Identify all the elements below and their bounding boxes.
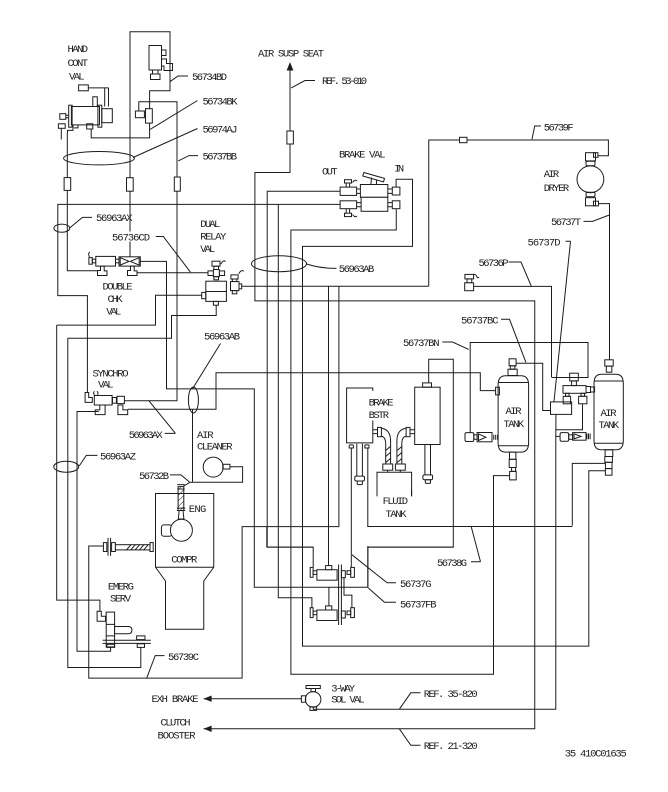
svg-text:56736P: 56736P (479, 258, 509, 270)
svg-text:56963AX: 56963AX (96, 213, 133, 225)
svg-text:56739F: 56739F (544, 122, 574, 134)
svg-text:56737BB: 56737BB (203, 152, 238, 164)
svg-text:35 410C01635: 35 410C01635 (565, 749, 627, 761)
svg-text:EMERG: EMERG (108, 582, 134, 594)
svg-text:AIR: AIR (544, 169, 560, 181)
svg-text:VAL: VAL (98, 380, 114, 392)
svg-text:CONT: CONT (68, 58, 89, 70)
svg-text:VAL: VAL (200, 244, 215, 256)
svg-text:56963AB: 56963AB (339, 264, 375, 276)
svg-text:VAL: VAL (69, 71, 85, 83)
svg-text:56732B: 56732B (139, 471, 169, 483)
svg-text:FLUID: FLUID (383, 496, 409, 508)
svg-text:TANK: TANK (504, 419, 525, 431)
svg-text:REF. 53-010: REF. 53-010 (322, 76, 367, 88)
svg-text:CHK: CHK (108, 294, 124, 306)
svg-text:CLEANER: CLEANER (197, 441, 233, 453)
svg-text:ENG: ENG (189, 504, 207, 516)
svg-text:AIR: AIR (506, 406, 523, 418)
svg-text:DUAL: DUAL (200, 219, 220, 231)
svg-text:56974AJ: 56974AJ (203, 125, 238, 137)
svg-text:56736CD: 56736CD (112, 233, 150, 245)
svg-text:AIR: AIR (197, 430, 214, 442)
svg-text:OUT: OUT (322, 166, 338, 178)
svg-text:TANK: TANK (599, 420, 620, 432)
svg-text:REF. 35-820: REF. 35-820 (424, 689, 478, 701)
svg-text:56963AZ: 56963AZ (100, 452, 136, 464)
svg-text:56739C: 56739C (168, 652, 199, 664)
svg-text:56963AB: 56963AB (204, 332, 240, 344)
svg-text:BOOSTER: BOOSTER (158, 731, 197, 743)
svg-text:56737BN: 56737BN (403, 338, 440, 350)
svg-text:56738G: 56738G (437, 558, 467, 570)
svg-text:56737D: 56737D (528, 237, 561, 249)
svg-text:DRYER: DRYER (544, 183, 570, 195)
svg-text:BSTR: BSTR (369, 410, 390, 422)
svg-text:EXH BRAKE: EXH BRAKE (152, 694, 199, 706)
svg-text:IN: IN (394, 163, 404, 175)
svg-text:VAL: VAL (106, 306, 121, 318)
svg-text:SERV: SERV (110, 593, 132, 605)
svg-text:56737BC: 56737BC (461, 315, 499, 327)
svg-text:56963AX: 56963AX (129, 430, 164, 442)
svg-text:CLUTCH: CLUTCH (161, 718, 191, 730)
svg-text:56737FB: 56737FB (400, 599, 437, 611)
svg-text:HAND: HAND (68, 44, 89, 56)
svg-text:TANK: TANK (386, 509, 408, 521)
svg-text:56734BK: 56734BK (203, 97, 239, 109)
svg-text:56737G: 56737G (400, 579, 432, 591)
svg-text:SYNCHRO: SYNCHRO (93, 368, 129, 380)
svg-text:REF. 21-320: REF. 21-320 (424, 741, 478, 753)
svg-text:AIR SUSP SEAT: AIR SUSP SEAT (258, 48, 324, 60)
svg-text:SOL VAL: SOL VAL (331, 694, 365, 706)
svg-text:56737T: 56737T (551, 217, 581, 229)
svg-text:AIR: AIR (601, 408, 618, 420)
svg-text:COMPR: COMPR (171, 554, 198, 566)
svg-text:BRAKE VAL: BRAKE VAL (339, 149, 386, 161)
svg-text:BRAKE: BRAKE (369, 397, 394, 409)
svg-text:56734BD: 56734BD (192, 72, 227, 84)
svg-text:DOUBLE: DOUBLE (103, 281, 133, 293)
svg-text:RELAY: RELAY (200, 231, 227, 243)
